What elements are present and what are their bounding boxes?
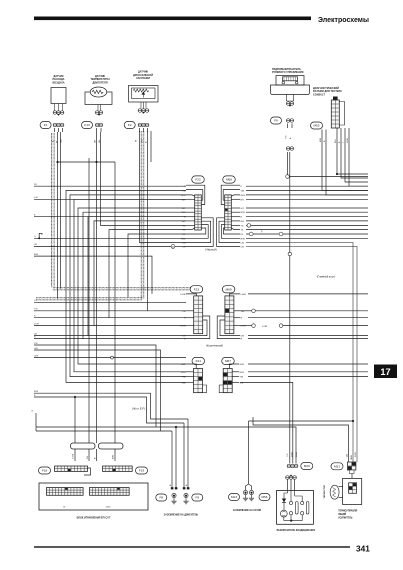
engine ground group (ЗАЗЕМЛЕНИЕ НА ДВИГАТЕЛЬ) (170, 484, 189, 504)
svg-text:G/Y: G/Y (241, 208, 245, 210)
svg-text:LG/R: LG/R (180, 294, 186, 296)
svg-text:ЗАЗЕМЛЕНИЕ НА КУЗОВ: ЗАЗЕМЛЕНИЕ НА КУЗОВ (233, 509, 262, 512)
AC switch box (ВЫКЛЮЧАТЕЛЬ КОНДИЦИОНЕРА) (277, 490, 314, 524)
connector M29 (301, 463, 313, 470)
svg-text:Y/B: Y/B (240, 377, 244, 379)
connector F8 left (156, 494, 167, 501)
thermo amplifier box (ТЕРМОУПРАВЛЯЮЩИЙ УСИЛИТЕЛЬ) (343, 474, 362, 505)
F23 hook wires (186, 294, 210, 339)
svg-text:L/W: L/W (34, 197, 38, 199)
svg-text:(Главный жгут): (Главный жгут) (317, 275, 336, 279)
bottom bus wire 431 to engine ground (32, 411, 172, 432)
ECU harness housing (71, 443, 124, 449)
steering switch long wire to AC switch (288, 152, 291, 464)
connector F9 right (192, 494, 203, 501)
thermistor symbol (330, 485, 343, 499)
shielded cable horizontal run to left labels (36, 297, 143, 300)
svg-text:F9: F9 (195, 496, 199, 500)
label Черный (205, 248, 217, 252)
svg-text:L/OR: L/OR (355, 452, 357, 457)
wires to engine ground pair 1 (172, 427, 176, 488)
left feed wires to F23 and F21 (34, 300, 186, 431)
svg-text:G/B: G/B (182, 382, 186, 384)
svg-text:L/GB: L/GB (291, 452, 293, 457)
svg-text:L/OR: L/OR (180, 326, 186, 328)
F21 hook and pin wires (186, 364, 207, 393)
steering switch wire to inline circle (286, 152, 368, 178)
svg-text:Y/B: Y/B (241, 190, 245, 192)
shielded cable from air flow sensor (52, 133, 55, 287)
svg-text:ЮЩИЙ: ЮЩИЙ (338, 513, 346, 516)
svg-text:Y/B: Y/B (182, 377, 186, 379)
svg-text:L/B: L/B (241, 243, 245, 245)
svg-text:(Коричневый): (Коричневый) (206, 344, 223, 348)
body ground group (ЗАЗЕМЛЕНИЕ НА КУЗОВ) (243, 490, 254, 500)
bottom bus wire 425 to thermo amp (253, 417, 349, 462)
left feed wires to F22 block (34, 184, 186, 294)
label Жгут EFI (132, 407, 147, 411)
svg-text:ТЕРМОУПРАВЛЯ-: ТЕРМОУПРАВЛЯ- (338, 510, 358, 513)
F23 left pin wire labels (180, 294, 186, 341)
svg-text:M69: M69 (226, 287, 232, 291)
svg-text:ДВИГАТЕЛЯ: ДВИГАТЕЛЯ (92, 81, 107, 84)
sensor B1 air flow meter (ДАТЧИК РАСХОДА ВОЗДУХА) (51, 75, 66, 116)
inline connector on steering switch wires (286, 147, 293, 151)
body ground label (233, 509, 262, 512)
connector M69 (222, 286, 235, 334)
connector F6 (271, 117, 294, 139)
ECU pin grid right (90, 488, 130, 509)
label Главный жгут (317, 275, 336, 279)
inline connector on Y/L wire (246, 224, 368, 228)
connector M56 (259, 494, 270, 501)
M67 wires to right edge (240, 364, 368, 464)
connector F21 (192, 357, 205, 392)
M69 right pin wire labels (241, 294, 247, 341)
svg-text:M68: M68 (226, 178, 232, 182)
svg-text:B/W: B/W (34, 254, 38, 256)
ECU box (39, 483, 148, 510)
svg-text:W/G: W/G (240, 372, 245, 374)
svg-text:M55: M55 (313, 124, 319, 128)
svg-text:ВОЗДУХА: ВОЗДУХА (52, 81, 64, 84)
svg-text:(Чёрный): (Чёрный) (205, 248, 217, 252)
svg-text:G/B: G/B (34, 348, 38, 350)
svg-text:CONSULT: CONSULT (313, 93, 325, 96)
ECU label (77, 517, 111, 520)
chapter tab 17 (374, 365, 397, 379)
thermistor label (324, 484, 326, 498)
wire fan linking F22 to F23 and F21 (66, 190, 186, 382)
svg-text:ТЕРМИСТОР: ТЕРМИСТОР (324, 484, 326, 498)
wire vertical to ECU pin 2 (88, 158, 90, 443)
svg-text:G/W: G/W (34, 355, 38, 357)
M69 hook wires (217, 294, 240, 339)
svg-text:M13: M13 (231, 495, 237, 499)
page number 341 (356, 544, 370, 554)
ECU connector drop wires (73, 449, 116, 461)
M68 right pin wire labels (241, 186, 246, 248)
svg-text:F22: F22 (195, 178, 201, 182)
OR wire bend down (246, 246, 357, 462)
svg-text:R/G: R/G (335, 139, 337, 143)
svg-text:БЛОК УПРАВЛЕНИЯ EFI-CVT: БЛОК УПРАВЛЕНИЯ EFI-CVT (77, 517, 111, 520)
connector M13 (229, 494, 240, 501)
connector M55 (311, 122, 323, 129)
M68 bottom hook wires (217, 218, 240, 247)
footer rule (34, 546, 350, 548)
M68 wires to right edge (246, 186, 368, 238)
F22 bottom hook wires (186, 218, 213, 247)
svg-text:LG/R: LG/R (241, 294, 247, 296)
svg-text:(Жгут E.F.I.): (Жгут E.F.I.) (132, 407, 147, 411)
connector F19 (103, 466, 148, 474)
header rule (34, 17, 311, 21)
svg-text:F6: F6 (274, 119, 278, 123)
connector F18 (39, 466, 91, 475)
M69 direct pin wires (234, 311, 240, 326)
connector F1 (40, 122, 64, 144)
sensor B3 throttle position (ДАТЧИК ДРОССЕЛЬНОЙ ЗАСЛОНКИ) (129, 71, 159, 114)
wire bus from sensors to ECU (56, 132, 115, 443)
inline connector F on P/L wire (249, 232, 283, 236)
M67 right pin wire labels (240, 364, 245, 384)
M69 wires to right edge (240, 294, 368, 339)
thermo amplifier label (338, 510, 358, 520)
F22 left pin wire labels (181, 186, 186, 248)
svg-text:B/W: B/W (34, 391, 38, 393)
label Коричневый (206, 344, 223, 348)
svg-text:W: W (136, 140, 138, 142)
connector M31 (331, 463, 343, 470)
wires from diagnostic connector left side (320, 130, 368, 195)
svg-text:W/G: W/G (241, 195, 246, 197)
svg-text:B/Y: B/Y (241, 199, 245, 201)
svg-text:OR: OR (241, 246, 245, 248)
F23 direct pin wires (186, 311, 194, 326)
svg-text:17: 17 (380, 367, 390, 377)
inline connector M on OR wire (171, 245, 186, 249)
wire to body ground from junction (246, 421, 252, 490)
wires to engine ground pair 2 (184, 419, 188, 488)
svg-text:F13: F13 (84, 123, 90, 127)
svg-text:Y/R: Y/R (34, 309, 38, 311)
svg-text:F23: F23 (194, 287, 200, 291)
bottom bus wire 427 to AC switch (36, 426, 296, 464)
svg-text:F2: F2 (128, 123, 132, 127)
svg-text:Y/R: Y/R (182, 311, 186, 313)
svg-text:OR: OR (241, 336, 245, 338)
wire sensor1 shield drain (60, 132, 62, 289)
thermo amp wire labels (347, 452, 357, 460)
svg-text:L/OR: L/OR (262, 326, 268, 328)
svg-text:M67: M67 (225, 359, 231, 363)
svg-text:ВЫКЛЮЧАТЕЛЬ КОНДИЦИОНЕРА: ВЫКЛЮЧАТЕЛЬ КОНДИЦИОНЕРА (277, 529, 316, 532)
wire vertical to ECU pin 1 (74, 397, 76, 443)
svg-text:OR: OR (182, 336, 186, 338)
svg-text:L/OR: L/OR (347, 138, 349, 143)
svg-text:F21: F21 (196, 359, 202, 363)
junction flag on G wire (38, 233, 42, 239)
svg-text:OR: OR (34, 244, 38, 246)
left feed wires lower pair (34, 391, 188, 423)
svg-text:F18: F18 (42, 469, 48, 473)
AC switch wire labels (287, 451, 298, 457)
L/B wire bend down to thermo amp (246, 243, 353, 463)
svg-text:2405: 2405 (106, 507, 112, 509)
shielded cable from throttle sensor (141, 131, 144, 299)
shielded cable horizontal run to F23 (52, 287, 191, 290)
svg-text:B/W: B/W (320, 138, 322, 142)
connector F13 (82, 122, 103, 144)
F21 left pin wire labels (181, 364, 186, 384)
engine ground label (164, 514, 199, 517)
connector M68 (223, 176, 236, 230)
svg-text:341: 341 (356, 544, 370, 554)
svg-text:OR/B: OR/B (351, 454, 353, 460)
thermo amp connector (348, 462, 356, 474)
svg-text:F1: F1 (44, 123, 48, 127)
wire sensor2 to ECU (97, 132, 187, 443)
F22 direct pin wires (186, 195, 195, 230)
svg-text:L G/B: L G/B (73, 453, 75, 459)
svg-text:W/G: W/G (181, 372, 186, 374)
connector F23 (190, 286, 203, 334)
wire sensor3 to F22 (140, 131, 187, 311)
svg-text:РУЛЕВОГО УПРАВЛЕНИЯ: РУЛЕВОГО УПРАВЛЕНИЯ (272, 71, 304, 74)
svg-text:R/GB: R/GB (296, 451, 298, 457)
M67 hook and pin wires (219, 364, 239, 393)
connector F22 (192, 176, 205, 230)
svg-text:B/W: B/W (113, 455, 115, 459)
svg-text:УСИЛИТЕЛЬ: УСИЛИТЕЛЬ (338, 518, 353, 520)
AC switch connector female (287, 464, 298, 468)
ECU pin grid left (47, 488, 84, 509)
F22 top hook wires (186, 185, 205, 204)
svg-text:L/OR: L/OR (34, 323, 39, 325)
M68 top hook wires (221, 185, 240, 204)
svg-text:OR: OR (34, 333, 38, 335)
svg-text:Y/G: Y/G (286, 135, 288, 139)
wires from diagnostic connector to right edge (335, 128, 368, 186)
bottom bus wire to thermo amp via junction (249, 420, 355, 422)
header title (318, 17, 369, 24)
sensor B2 engine temperature (ДАТЧИК ТЕМПЕРАТУРЫ ДВИГАТЕЛЯ) (85, 75, 112, 116)
connector M67 (222, 357, 235, 392)
svg-text:M31: M31 (334, 464, 340, 468)
diagnostic connector for CONSULT tester (ДИАГНОСТИЧЕСКИЙ РАЗЪЕМ) (313, 87, 345, 128)
svg-text:F19: F19 (139, 469, 145, 473)
AC switch label (277, 529, 316, 532)
svg-text:Электросхемы: Электросхемы (318, 17, 369, 24)
connector F2 (124, 122, 149, 144)
svg-text:F8: F8 (159, 496, 163, 500)
svg-text:ЗАЗЕМЛЕНИЕ НА ДВИГАТЕЛЬ: ЗАЗЕМЛЕНИЕ НА ДВИГАТЕЛЬ (164, 514, 199, 517)
svg-text:Y/G: Y/G (287, 453, 289, 457)
svg-text:M29: M29 (304, 464, 310, 468)
svg-text:M56: M56 (261, 495, 267, 499)
open junction on wire (111, 356, 114, 359)
AC switch connector male (286, 474, 297, 490)
hydraulic power steering switch (ГИДРОВЫКЛЮЧАТЕЛЬ РУЛЕВОГО УПРАВЛЕНИЯ) (271, 68, 310, 107)
M68 direct pin wires (231, 195, 240, 230)
svg-text:ЗАСЛОНКИ: ЗАСЛОНКИ (136, 77, 150, 80)
